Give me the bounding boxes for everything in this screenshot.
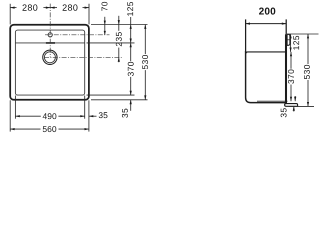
dim 200 line: [246, 23, 287, 25]
label 235: [116, 32, 122, 46]
label 35: [281, 108, 287, 117]
sink bottom extension: [91, 99, 148, 101]
label 530: [142, 55, 148, 69]
drain inner circle: [44, 52, 55, 63]
bold center tick on bowl edge: [46, 42, 55, 44]
label 280 right: [63, 4, 78, 10]
dim 530 right view: [307, 34, 309, 64]
thin front edge line: [257, 100, 288, 102]
dim 530 left view: [144, 25, 146, 55]
label 70: [102, 2, 108, 11]
drain horizontal centerline: [44, 56, 123, 58]
label 35: [99, 112, 108, 118]
top edge extension to the right: [91, 24, 148, 26]
bowl bottom extension: [87, 94, 135, 96]
dim 70: [104, 17, 106, 35]
dim 200: extension lines: [245, 19, 247, 52]
label 530: [304, 65, 310, 79]
dim 35 horizontal: [89, 115, 97, 117]
label 370: [288, 70, 294, 84]
dim 560: [10, 128, 40, 130]
side profile: bowl bottom plane with rounded front corner: [246, 51, 287, 103]
dim 280 left: [10, 7, 16, 9]
rim surface bar: [285, 34, 287, 106]
dim 235: [118, 16, 120, 31]
faucet horizontal centerline: [45, 34, 110, 36]
faucet hole: [48, 33, 52, 37]
label 280 left: [22, 4, 37, 10]
dim 370 right view: [290, 52, 292, 69]
top dim: right extension line: [88, 4, 90, 25]
label 560: [43, 126, 57, 132]
label 370: [128, 62, 134, 76]
sink outer rim 560x530: [10, 25, 89, 100]
bowl top edge line: [15, 42, 84, 44]
bottom mounting clip: [285, 104, 298, 107]
right view bottom extension line: [289, 105, 314, 107]
dim 490: [15, 115, 40, 117]
dim 125 left view: [130, 17, 132, 43]
vertical centerline: [49, 4, 51, 58]
inner recess rect: [15, 30, 84, 95]
dim 370 left view: [130, 43, 132, 61]
label 125: [127, 2, 133, 16]
drain outer circle: [43, 50, 57, 64]
top dim: left extension line: [9, 4, 11, 25]
dim 35 right view bottom: [294, 96, 296, 101]
label 200: [259, 8, 275, 15]
label 125: [293, 36, 299, 50]
dim 35 vertical bottom left view: [130, 100, 132, 111]
label 35: [122, 109, 128, 118]
ledge/step line: [246, 52, 285, 54]
dim 125 right view: [290, 34, 292, 52]
label 490: [43, 113, 57, 119]
bottom extension lines: [9, 100, 11, 131]
top mounting clip: [287, 34, 290, 45]
right view top extension line: [287, 33, 319, 35]
dim 280 right: [50, 7, 57, 9]
bowl top extension: [87, 42, 135, 44]
